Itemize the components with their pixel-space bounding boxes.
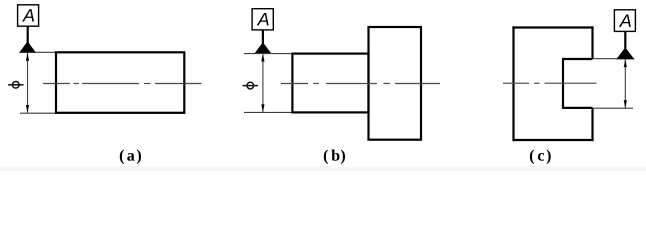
dimension arrow up (b) xyxy=(261,54,264,62)
bottom extension line (b) xyxy=(244,111,292,113)
datum leader stem (c) xyxy=(624,31,626,48)
dimension line (c) xyxy=(624,59,626,108)
datum frame box A (c) xyxy=(614,10,635,32)
phi symbol (b) xyxy=(247,82,254,89)
dimension line (a) xyxy=(27,53,29,113)
top extension line (b) xyxy=(244,53,292,55)
datum leader stem (b) xyxy=(262,30,264,44)
recess top edge (c) xyxy=(562,58,593,60)
datum filled triangle (c) xyxy=(616,47,634,59)
datum filled triangle (b) xyxy=(254,42,271,54)
datum filled triangle (a) xyxy=(19,41,36,53)
top extension line (a) xyxy=(20,51,56,53)
part rectangle (a) xyxy=(56,52,184,113)
centerline (c) xyxy=(503,82,529,84)
bottom extension line (c) xyxy=(594,107,633,109)
datum frame box A (a) xyxy=(18,5,39,26)
top extension line (c) xyxy=(594,58,635,60)
dimension arrow up (c) xyxy=(624,59,627,67)
datum letter A (a) xyxy=(22,9,34,21)
dimension arrow up (a) xyxy=(26,53,29,61)
bottom light separator band xyxy=(0,167,646,172)
body rectangle left edge (c) xyxy=(512,26,514,141)
phi symbol (a) xyxy=(13,82,20,89)
caption (c) xyxy=(530,150,551,165)
caption (b) xyxy=(324,150,345,165)
dimension arrow down (c) xyxy=(624,100,627,108)
caption (a) xyxy=(120,150,141,165)
flange big rectangle (b) xyxy=(369,27,422,140)
datum leader stem (a) xyxy=(27,26,29,42)
dimension arrow down (b) xyxy=(261,104,264,112)
body right edge upper segment (c) xyxy=(591,26,593,59)
datum letter A (c) xyxy=(619,15,631,27)
bottom extension line (a) xyxy=(20,112,56,114)
centerline (b) xyxy=(281,83,308,85)
centerline (a) xyxy=(43,83,70,85)
body rectangle bottom edge (c) xyxy=(512,139,593,141)
recess bottom edge (c) xyxy=(562,107,593,109)
shaft small rectangle (b) xyxy=(292,54,368,113)
datum letter A (b) xyxy=(257,13,269,25)
dimension line (b) xyxy=(262,54,264,112)
datum frame box A (b) xyxy=(252,9,273,30)
dimension arrow down (a) xyxy=(26,105,29,113)
recess bottom-of-hole edge (c) xyxy=(562,58,564,109)
body rectangle top edge (c) xyxy=(512,26,593,28)
body right edge lower segment (c) xyxy=(591,108,593,141)
